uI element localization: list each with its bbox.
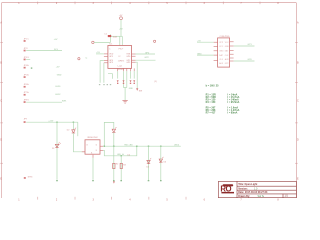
- svg-text:Date: 2017-03-04 03:27:23: Date: 2017-03-04 03:27:23: [238, 191, 268, 194]
- wire Q1 source down: [92, 158, 94, 180]
- frame column labels top: [18, 2, 279, 5]
- svg-text:GND: GND: [225, 46, 230, 48]
- svg-text:(1): (1): [154, 81, 157, 83]
- svg-text:GND: GND: [57, 74, 62, 76]
- svg-text:IRLML2502: IRLML2502: [87, 137, 98, 139]
- wire IC top pin a: [119, 36, 121, 45]
- svg-text:CON-PRG: CON-PRG: [220, 36, 230, 38]
- left global label row5: [24, 74, 62, 78]
- frame row ticks right: [295, 42, 298, 163]
- frame row labels left: [0, 21, 2, 180]
- IC1 right pin stubs: [132, 54, 136, 62]
- svg-text:JP5 A: JP5 A: [24, 74, 30, 77]
- frame column ticks top: [38, 2, 260, 5]
- wire J1 right pin6: [234, 60, 255, 62]
- bus1 wire: [26, 121, 78, 123]
- left global label row7: [24, 91, 62, 96]
- wire drop x57: [56, 122, 58, 180]
- wire row2: [26, 50, 62, 52]
- svg-text:GP3: GP3: [109, 62, 113, 64]
- wire J1 left pin4: [197, 54, 214, 56]
- no-connect circle right of IC: [154, 40, 156, 42]
- svg-text:+5V: +5V: [54, 39, 58, 41]
- diode D3: [112, 127, 116, 132]
- wire end ticks bottom: [56, 180, 161, 181]
- frame column labels bottom: [18, 198, 279, 201]
- resistor R3: [120, 163, 127, 168]
- svg-text:+5V: +5V: [119, 15, 123, 17]
- down label c: [130, 80, 132, 84]
- LED bus2 wire: [103, 145, 181, 147]
- svg-text:C: C: [0, 99, 2, 102]
- svg-text:GND: GND: [129, 88, 134, 90]
- svg-text:SW: SW: [139, 91, 142, 93]
- wire below IC bottom left: [108, 74, 112, 79]
- Q1 pin stubs: [82, 146, 103, 158]
- bus1 end drop: [77, 122, 79, 136]
- svg-text:L-Q2: L-Q2: [118, 65, 122, 67]
- wire D2 to Q1 gate: [73, 133, 85, 152]
- unconnected pin circle: [78, 58, 80, 60]
- wire drop x148.5: [148, 146, 150, 181]
- wires IC bottom pins down: [118, 71, 135, 87]
- resistor R2: [113, 163, 119, 168]
- svg-text:GND: GND: [219, 51, 224, 53]
- connector J1 body: [218, 36, 230, 67]
- wire down to ground: [124, 88, 126, 101]
- connector pin circle: [92, 41, 94, 43]
- svg-text:GND: GND: [197, 53, 202, 55]
- wire J1 left pin1: [197, 41, 214, 43]
- wire drop x160.8: [160, 146, 162, 181]
- down label b: [123, 80, 125, 84]
- svg-text:Title: Open-Light: Title: Open-Light: [238, 183, 257, 186]
- wire J1 right pin2: [234, 45, 255, 47]
- svg-text:12F629: 12F629: [118, 69, 124, 71]
- IC1 microcontroller body: [108, 43, 132, 71]
- wire IC right pin4 elbow down: [136, 62, 138, 88]
- title block box: [218, 181, 296, 197]
- left global label standalone: [24, 176, 33, 178]
- LED D5: [147, 158, 152, 168]
- frame column ticks bottom: [38, 197, 186, 200]
- svg-text:I = 95.5mA: I = 95.5mA: [228, 101, 240, 104]
- red mark below x113.8 end: [113, 181, 115, 183]
- svg-text:Drawn By:: Drawn By:: [238, 195, 250, 198]
- notes text block: [206, 85, 240, 115]
- svg-text:VCC: VCC: [225, 42, 230, 44]
- left global label row1: [24, 38, 58, 41]
- wire drop x121.2 below lower wire: [120, 156, 122, 181]
- junction bus2 x160.8: [160, 146, 161, 147]
- svg-text:JP9: JP9: [24, 119, 27, 121]
- svg-text:+24V: +24V: [48, 120, 54, 122]
- svg-text:JP7 A: JP7 A: [24, 91, 30, 94]
- left global label bus source: [24, 119, 27, 123]
- left global label row3: [24, 57, 30, 60]
- +5V power symbol: [119, 15, 123, 20]
- svg-text:C: C: [297, 99, 299, 102]
- svg-text:D: D: [297, 138, 299, 141]
- down label a: [117, 80, 119, 84]
- left global label row4: [24, 64, 61, 69]
- junction bus2 x104.3: [104, 146, 105, 147]
- green dot row4: [31, 67, 33, 68]
- wire row3: [26, 59, 30, 61]
- svg-text:LED4: LED4: [174, 144, 180, 146]
- down label d: [133, 80, 135, 84]
- left global label row6: [24, 83, 62, 88]
- wire drop x113.8 below bus2: [113, 146, 115, 181]
- wire IC left pin3 elbow: [100, 61, 104, 83]
- svg-text:GP0: GP0: [126, 56, 130, 58]
- svg-text:JP4 A: JP4 A: [24, 64, 30, 67]
- junction bus2 x148.5: [148, 146, 149, 147]
- diode D2: [67, 128, 76, 133]
- frame row ticks left: [0, 42, 3, 163]
- svg-text:12F675: 12F675: [118, 61, 124, 63]
- left global label row8: [24, 100, 30, 103]
- svg-text:GP5: GP5: [109, 56, 113, 58]
- capacitor C1: [104, 34, 118, 43]
- svg-text:D: D: [0, 138, 2, 141]
- J1 right pin stubs: [230, 42, 234, 61]
- svg-text:nc: nc: [85, 58, 87, 60]
- svg-text:R7 = 417: R7 = 417: [206, 112, 216, 115]
- svg-text:MTG: MTG: [28, 176, 33, 178]
- pi bridge segment: [104, 122, 114, 146]
- svg-text:b = 160 / 25: b = 160 / 25: [206, 85, 219, 88]
- J1 left pin stubs: [214, 42, 218, 60]
- svg-text:JP6 A: JP6 A: [24, 83, 30, 86]
- svg-text:SW_LED: SW_LED: [124, 144, 133, 146]
- frame row labels right: [297, 21, 299, 180]
- logo: [220, 184, 234, 193]
- svg-text:Version:: Version:: [238, 187, 248, 190]
- wire row8: [26, 101, 62, 103]
- merge tee under IC: [123, 87, 126, 89]
- svg-text:VCC: VCC: [219, 46, 224, 48]
- transistor Q1 block: [85, 137, 100, 154]
- svg-text:GP2: GP2: [225, 63, 229, 65]
- junction bus1 x73.4: [73, 122, 74, 123]
- ground symbol: [122, 101, 127, 104]
- svg-text:GP2: GP2: [126, 62, 130, 64]
- svg-text:LED1: LED1: [55, 86, 61, 88]
- IC1 left pin stubs: [104, 54, 108, 63]
- wire pin to cap node: [94, 42, 110, 44]
- IC bottom pin stubs: [118, 68, 135, 71]
- tiny net dots under elbows: [99, 84, 111, 85]
- wire bridge above IC: [110, 35, 122, 37]
- svg-text:Sal Te: Sal Te: [258, 195, 265, 198]
- junction lower wire elbow on bus2: [136, 146, 137, 147]
- svg-text:LED2: LED2: [55, 94, 61, 96]
- wire IC top pin b: [121, 36, 123, 45]
- wire IC left pin1: [96, 53, 104, 55]
- svg-text:+5V: +5V: [119, 28, 123, 30]
- svg-text:I = 85mA: I = 85mA: [228, 112, 238, 115]
- sheet border frame: [2, 3, 297, 198]
- LED D6: [159, 157, 167, 164]
- lower wire jog from Q1 pin: [103, 146, 137, 156]
- wire IC left pin4 elbow: [103, 63, 105, 83]
- junction bus1 x57: [56, 122, 57, 123]
- junction lower wire x121.2: [121, 155, 122, 156]
- wire down to D2: [72, 122, 74, 129]
- wire D3 to bus2: [113, 132, 115, 146]
- wire IC right pin3: [136, 59, 156, 61]
- svg-text:R4 = 150: R4 = 150: [206, 101, 216, 104]
- svg-text:+5V: +5V: [56, 67, 60, 69]
- down global label at drop: [136, 88, 142, 92]
- wire IC right pin1: [136, 53, 156, 55]
- wire power down: [120, 20, 122, 37]
- LED D1: [52, 142, 61, 150]
- svg-text:+5V: +5V: [197, 40, 201, 42]
- left global label row2: [24, 48, 29, 51]
- junction bus2 x113.8: [113, 146, 114, 147]
